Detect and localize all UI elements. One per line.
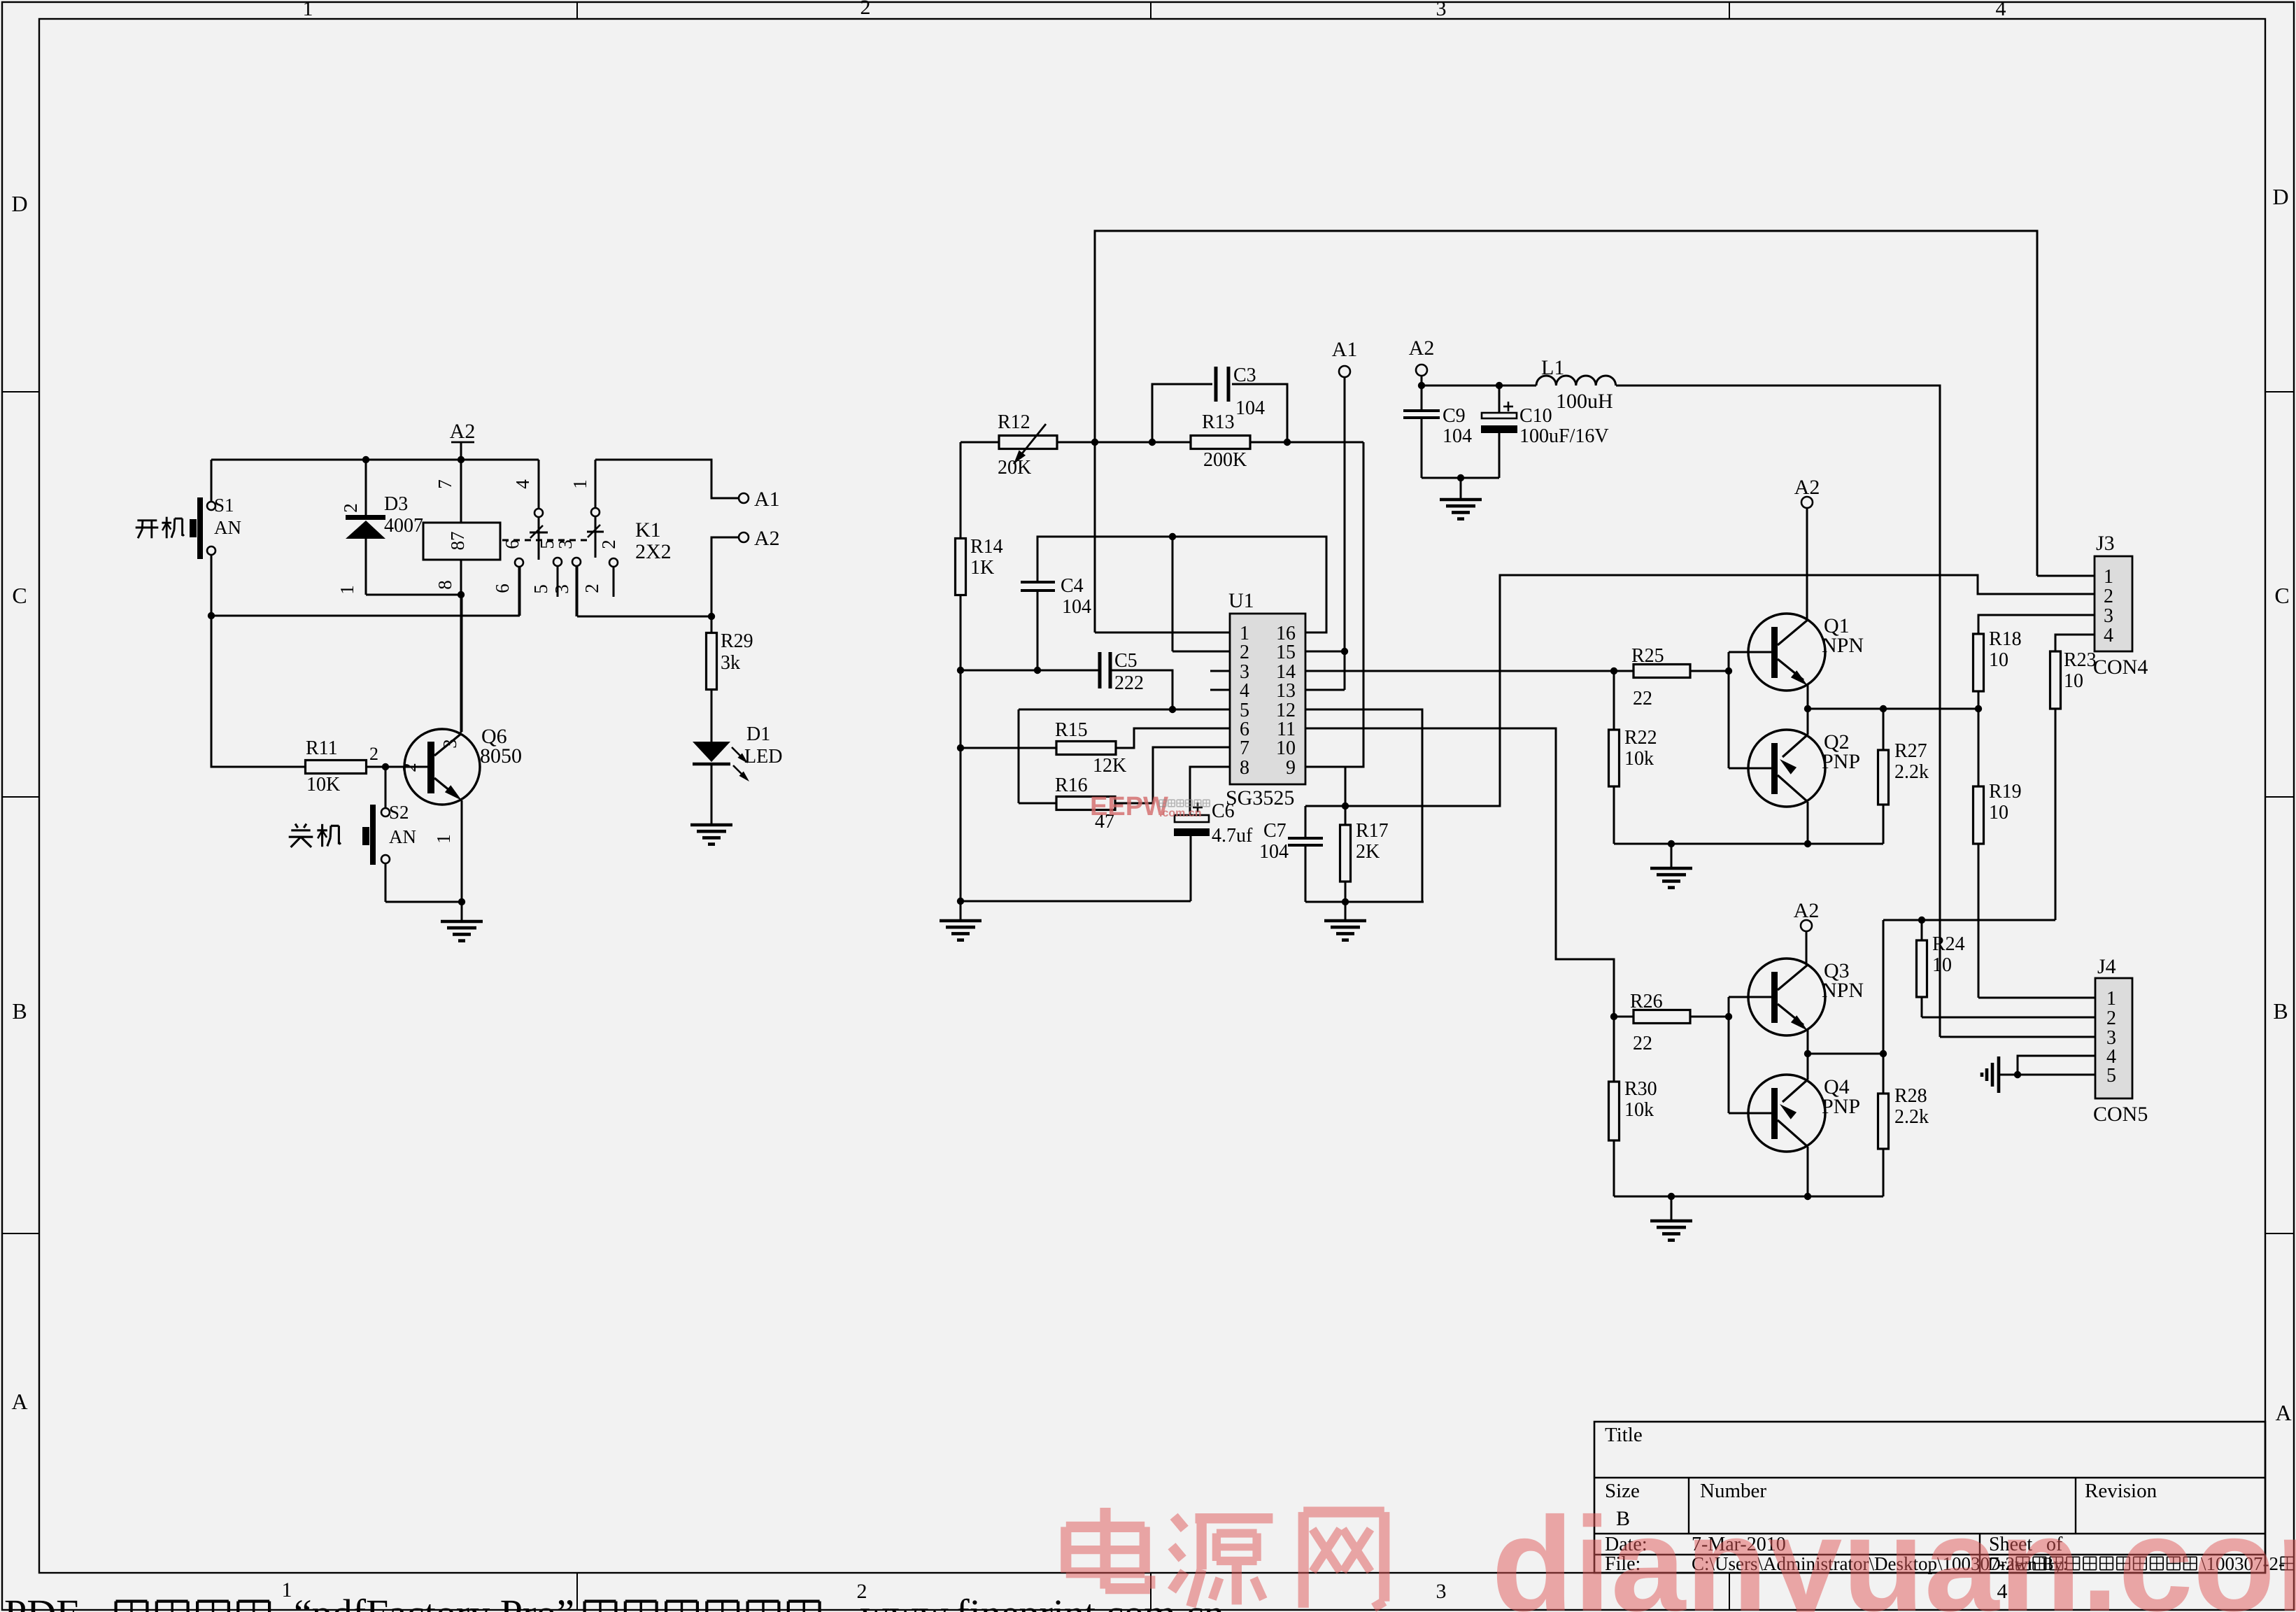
wire pin1 to feedback node bbox=[1095, 632, 1230, 634]
junction dot R14 C5 wire bbox=[957, 667, 964, 674]
svg-text:C6: C6 bbox=[1212, 800, 1235, 822]
junction dot C5 to pin5 bbox=[1169, 706, 1176, 713]
svg-text:4: 4 bbox=[1996, 0, 2006, 20]
capacitor C10 100uF/16V electrolytic bbox=[1498, 386, 1501, 413]
svg-text:200K: 200K bbox=[1203, 449, 1247, 471]
wire pin7 to R16 bbox=[1115, 747, 1230, 803]
wire L1 net to J4 pin3 bbox=[1940, 1036, 2095, 1038]
svg-text:PNP: PNP bbox=[1822, 750, 1860, 773]
wire C4 top loop to pin16 bbox=[1037, 537, 1326, 632]
svg-text:10k: 10k bbox=[1624, 748, 1654, 770]
svg-text:R26: R26 bbox=[1630, 991, 1663, 1012]
svg-text:R23: R23 bbox=[2064, 649, 2097, 671]
svg-text:PDF: PDF bbox=[4, 1591, 78, 1612]
svg-text:10K: 10K bbox=[306, 774, 340, 796]
junction dot loop pin2 vertical bbox=[1169, 533, 1176, 540]
wire R12 R13 feedback line bbox=[961, 441, 999, 444]
capacitor C3 104 bbox=[1152, 384, 1212, 442]
connector J3 CON4 bbox=[2095, 556, 2132, 651]
wire R28 top to R23 net bbox=[1883, 919, 2055, 921]
svg-text:20K: 20K bbox=[998, 457, 1031, 479]
svg-text:.com.cn: .com.cn bbox=[1159, 807, 1201, 819]
svg-text:R14: R14 bbox=[970, 536, 1003, 558]
wire J4 pin5 to ground bbox=[1999, 1074, 2095, 1076]
resistor R27 2.2k bbox=[1883, 709, 1885, 750]
svg-text:A: A bbox=[11, 1389, 27, 1414]
wire A1 down to pin15 pin13 bbox=[1344, 377, 1346, 690]
wire L1 output to J4 pin3 bbox=[1616, 386, 1940, 1037]
svg-text:R13: R13 bbox=[1202, 411, 1235, 433]
wire bottom rail contact3 to R29 node bbox=[577, 616, 711, 618]
wire pin12 down to ground rail bbox=[1305, 709, 1422, 902]
diode D3 4007 bbox=[365, 460, 367, 516]
capacitor C5 222 bbox=[1098, 652, 1102, 688]
svg-text:2: 2 bbox=[860, 0, 871, 19]
transistor Q4 PNP bbox=[1748, 1075, 1825, 1152]
pin3 stub bbox=[1210, 670, 1230, 672]
resistor R22 10k bbox=[1613, 671, 1615, 730]
svg-text:R28: R28 bbox=[1894, 1085, 1927, 1107]
junction dot ground stem rail1 bbox=[1668, 840, 1675, 847]
resistor R23 10 from J3 pin4 bbox=[2055, 635, 2095, 651]
resistor R24 10 bbox=[1921, 920, 1923, 940]
wire pin5 line bbox=[1019, 709, 1230, 711]
svg-text:3: 3 bbox=[439, 739, 460, 749]
ground under Q6 bbox=[461, 902, 463, 921]
junction dot R15 left rail bbox=[957, 744, 964, 751]
svg-text:10: 10 bbox=[1989, 649, 2008, 671]
svg-text:D: D bbox=[2272, 184, 2288, 209]
wire Q3 emitter to mid node bbox=[1807, 1029, 1809, 1054]
svg-text:A2: A2 bbox=[1794, 899, 1820, 922]
switch S1 pushbutton bbox=[211, 460, 213, 502]
svg-text:1: 1 bbox=[303, 0, 313, 20]
svg-text:A2: A2 bbox=[450, 420, 476, 443]
wire C7 R17 rail to J3 pin2 bbox=[1305, 575, 2095, 806]
capacitor C9 104 bbox=[1421, 386, 1423, 409]
svg-text:R19: R19 bbox=[1989, 781, 2022, 803]
resistor R19 10 bbox=[1973, 786, 1984, 844]
wire S1 down to R11 bbox=[211, 616, 306, 767]
junction dot A2 C9 bbox=[1418, 382, 1425, 389]
svg-text:10: 10 bbox=[1276, 737, 1296, 759]
svg-text:1: 1 bbox=[2104, 566, 2113, 588]
svg-text:R12: R12 bbox=[998, 411, 1030, 433]
wire D3 anode to relay pin 8 bbox=[366, 594, 461, 596]
junction dot relay pin7 / A2 bbox=[458, 456, 465, 463]
junction dot Q1 base node bbox=[1725, 667, 1732, 674]
svg-text:4.7uf: 4.7uf bbox=[1212, 825, 1253, 847]
ground under D1 bbox=[690, 823, 732, 827]
capacitor C4 104 bbox=[1021, 581, 1055, 584]
svg-text:R15: R15 bbox=[1055, 719, 1088, 741]
junction dot Q6 emitter ground bbox=[458, 898, 465, 905]
svg-text:R29: R29 bbox=[721, 630, 753, 652]
title block column dividers bbox=[1688, 1478, 1689, 1534]
LED D1 bbox=[693, 742, 730, 762]
svg-text:1: 1 bbox=[433, 834, 454, 844]
svg-text:1: 1 bbox=[336, 585, 357, 595]
svg-text:A1: A1 bbox=[1332, 338, 1358, 361]
wire Q3 Q4 group ground rail bbox=[1614, 1196, 1883, 1198]
relay contact throw 5 bbox=[553, 558, 562, 566]
svg-text:4: 4 bbox=[512, 479, 533, 489]
resistor R14 1K bbox=[956, 539, 966, 595]
junction dot Q1 Q2 output bbox=[1804, 705, 1811, 712]
svg-text:AN: AN bbox=[389, 826, 416, 847]
svg-text:2: 2 bbox=[399, 763, 420, 772]
svg-text:10: 10 bbox=[2064, 670, 2083, 692]
wire pin14 to R25 bbox=[1305, 670, 1614, 672]
svg-text:D1: D1 bbox=[746, 723, 770, 745]
svg-text:3: 3 bbox=[1436, 1580, 1447, 1603]
relay contact throw 3 bbox=[572, 558, 581, 566]
wire bottom rail S1 to contact 6 bbox=[211, 615, 520, 617]
ground under R14 rail bbox=[960, 901, 962, 920]
svg-text:3: 3 bbox=[2104, 605, 2113, 627]
wire pin15 stub bbox=[1305, 651, 1345, 653]
pin4 stub bbox=[1210, 689, 1230, 691]
wire output node to R18 R19 bbox=[1808, 708, 1978, 710]
resistor R15 12K bbox=[1056, 742, 1116, 755]
svg-text:2K: 2K bbox=[1356, 841, 1380, 863]
transistor Q6 8050 bbox=[404, 729, 480, 805]
junction dot A1 pin15 bbox=[1341, 648, 1348, 655]
junction dot Q6 base / S2 bbox=[382, 763, 389, 770]
junction dot R18 R19 node bbox=[1975, 705, 1982, 712]
junction dot S1 bottom rail bbox=[208, 612, 215, 619]
wire pin9 node bbox=[1345, 767, 1347, 806]
svg-text:2.2k: 2.2k bbox=[1894, 761, 1929, 783]
resistor R25 22 bbox=[1614, 670, 1634, 672]
svg-text:C9: C9 bbox=[1443, 405, 1466, 427]
resistor R30 10k bbox=[1613, 1017, 1615, 1082]
svg-text:S2: S2 bbox=[389, 802, 409, 823]
wire R13 to pin9 vertical bbox=[1305, 442, 1363, 767]
svg-text:A2: A2 bbox=[754, 527, 780, 550]
svg-text:A1: A1 bbox=[754, 488, 780, 511]
wire Q4 collector to rail bbox=[1807, 1054, 1809, 1080]
relay pin 8 stem down to Q6 collector bbox=[460, 560, 462, 733]
resistor R11 10K bbox=[306, 761, 367, 774]
transistor Q1 NPN bbox=[1748, 614, 1825, 691]
junction dot J4 pin4 pin5 bbox=[2014, 1071, 2021, 1078]
junction dot Q2 emitter rail bbox=[1804, 840, 1811, 847]
junction dot Q3 Q4 output bbox=[1804, 1050, 1811, 1057]
junction dot R24 top bbox=[1918, 917, 1925, 924]
junction dot R26 R30 bbox=[1610, 1013, 1617, 1020]
svg-text:CON4: CON4 bbox=[2093, 656, 2148, 679]
junction dot D3 top bbox=[362, 456, 369, 463]
wire R14 down to ground rail bbox=[960, 595, 962, 901]
IC U1 SG3525 body bbox=[1230, 614, 1305, 784]
wire contact1 to A1 terminal bbox=[595, 460, 739, 498]
svg-text:B: B bbox=[2273, 998, 2288, 1024]
svg-text:2: 2 bbox=[369, 744, 378, 764]
svg-text:K1: K1 bbox=[635, 518, 661, 542]
svg-text:NPN: NPN bbox=[1822, 634, 1864, 657]
junction dot relay pin8 / D3 bbox=[458, 591, 465, 598]
relay contact pole 4 bbox=[538, 460, 540, 509]
svg-text:A2: A2 bbox=[1794, 476, 1820, 499]
junction dot R17 ground bbox=[1342, 898, 1349, 905]
junction dot ground bracket bbox=[1457, 474, 1464, 481]
junction dot C10 tap bbox=[1496, 382, 1503, 389]
svg-text:104: 104 bbox=[1062, 596, 1091, 618]
junction dot R25 R22 bbox=[1610, 667, 1617, 674]
svg-text:6: 6 bbox=[502, 539, 523, 549]
relay contact dashed link bbox=[502, 539, 592, 542]
svg-text:3: 3 bbox=[551, 584, 572, 594]
svg-text:100uH: 100uH bbox=[1556, 390, 1613, 413]
ground under Q4 group bbox=[1671, 1196, 1673, 1220]
svg-text:L1: L1 bbox=[1541, 356, 1564, 379]
ground under Q2 group bbox=[1671, 844, 1673, 868]
resistor R18 10 bbox=[1978, 615, 2095, 634]
svg-text:AN: AN bbox=[214, 517, 241, 538]
svg-text:1: 1 bbox=[2106, 988, 2116, 1010]
svg-text:CON5: CON5 bbox=[2093, 1103, 2148, 1126]
svg-text:A: A bbox=[2275, 1400, 2291, 1425]
svg-text:“pdfFactory Pro”: “pdfFactory Pro” bbox=[294, 1591, 574, 1612]
wire C5 line bbox=[961, 670, 1098, 672]
wire J4 pin4 jog to pin5 net bbox=[2018, 1056, 2095, 1075]
wire pin2 to top loop bbox=[1172, 651, 1230, 653]
junction dot C4 on C5 wire bbox=[1034, 667, 1041, 674]
capacitor C7 104 bbox=[1305, 806, 1307, 837]
wire A2 to Q3 collector bbox=[1806, 931, 1808, 965]
title block row dividers bbox=[1594, 1477, 2265, 1478]
wire J3 pin1 from top rail bbox=[2037, 575, 2095, 577]
junction dot ground rail left bbox=[957, 898, 964, 905]
svg-text:87: 87 bbox=[447, 532, 468, 551]
svg-text:8050: 8050 bbox=[480, 744, 522, 768]
junction dot R12 R13 pin1 node bbox=[1091, 439, 1098, 446]
wire R12 to R14 bbox=[960, 442, 962, 539]
svg-text:4: 4 bbox=[2104, 625, 2113, 646]
resistor R13 200K bbox=[1191, 436, 1250, 449]
wire Q1 Q2 group ground rail bbox=[1614, 843, 1883, 845]
wire Q3 Q4 base ladder bbox=[1728, 997, 1730, 1113]
svg-text:1: 1 bbox=[282, 1578, 292, 1602]
switch S2 pushbutton bbox=[385, 767, 387, 808]
relay contact throw 2 bbox=[609, 558, 618, 567]
watermark dianyuan big red bbox=[1066, 1508, 1384, 1608]
junction dot C3 right leg bbox=[1284, 439, 1291, 446]
svg-text:S1: S1 bbox=[214, 495, 234, 516]
svg-text:3: 3 bbox=[1436, 0, 1447, 20]
junction dot R28 mid bbox=[1880, 1050, 1887, 1057]
wire pin6 to R15 bbox=[1116, 728, 1230, 748]
wire Q1 emitter to mid node bbox=[1807, 684, 1809, 709]
svg-text:R11: R11 bbox=[306, 737, 338, 759]
svg-text:104: 104 bbox=[1443, 425, 1472, 447]
relay pin 7 stem bbox=[460, 460, 462, 523]
resistor R17 2K bbox=[1345, 806, 1347, 825]
svg-text:C10: C10 bbox=[1519, 405, 1552, 427]
svg-text:5: 5 bbox=[530, 584, 551, 594]
ground under C9 C10 bbox=[1460, 478, 1462, 499]
svg-text:2X2: 2X2 bbox=[635, 540, 672, 563]
svg-text:J3: J3 bbox=[2096, 532, 2115, 555]
svg-text:R17: R17 bbox=[1356, 820, 1389, 842]
transistor Q3 NPN bbox=[1748, 959, 1825, 1035]
svg-text:13: 13 bbox=[1276, 680, 1296, 702]
junction dot R29 top node bbox=[708, 613, 715, 620]
svg-text:12K: 12K bbox=[1093, 755, 1126, 777]
svg-text:2: 2 bbox=[1240, 642, 1249, 663]
svg-text:1: 1 bbox=[569, 479, 590, 489]
relay contact throw 6 bbox=[515, 558, 523, 567]
svg-text:1K: 1K bbox=[970, 557, 994, 579]
wire A2 to L1 bbox=[1421, 376, 1423, 386]
junction dot ground stem rail2 bbox=[1668, 1193, 1675, 1200]
svg-text:C7: C7 bbox=[1263, 820, 1287, 842]
junction dot C3 left leg bbox=[1149, 439, 1156, 446]
wire R24 to J4 pin2 bbox=[1922, 1017, 2095, 1019]
svg-text:104: 104 bbox=[1259, 841, 1289, 863]
svg-text:C: C bbox=[12, 583, 27, 608]
terminal A2 relay output bbox=[739, 532, 749, 542]
svg-text:C: C bbox=[2274, 583, 2289, 608]
svg-text:3: 3 bbox=[555, 539, 576, 549]
svg-text:A2: A2 bbox=[1409, 337, 1435, 360]
svg-text:7: 7 bbox=[1240, 737, 1249, 759]
wire C7 R17 bottom rail bbox=[1305, 901, 1424, 903]
wire A2 terminal down to R29 bbox=[711, 537, 739, 616]
svg-text:222: 222 bbox=[1114, 672, 1144, 694]
svg-text:100uF/16V: 100uF/16V bbox=[1519, 425, 1609, 447]
wire output node to R28 bbox=[1808, 1053, 1883, 1055]
svg-text:9: 9 bbox=[1286, 757, 1296, 779]
svg-text:5: 5 bbox=[2106, 1065, 2116, 1087]
svg-text:7: 7 bbox=[434, 479, 455, 489]
svg-text:D3: D3 bbox=[384, 493, 408, 515]
svg-text:www.fineprint.com.cn: www.fineprint.com.cn bbox=[860, 1591, 1224, 1612]
svg-text:Title: Title bbox=[1605, 1424, 1643, 1446]
junction dot pin9 R17 C7 bbox=[1342, 803, 1349, 809]
svg-text:4007: 4007 bbox=[384, 515, 423, 537]
svg-text:R30: R30 bbox=[1624, 1078, 1657, 1100]
svg-text:22: 22 bbox=[1633, 1033, 1652, 1054]
svg-text:22: 22 bbox=[1633, 688, 1652, 709]
junction dot R27 top bbox=[1880, 705, 1887, 712]
svg-text:2: 2 bbox=[2104, 586, 2113, 607]
svg-text:8: 8 bbox=[1240, 757, 1249, 779]
terminal A1 relay output bbox=[739, 493, 749, 503]
label guan-ji power off bbox=[295, 823, 298, 828]
svg-text:D: D bbox=[11, 191, 27, 216]
svg-text:R27: R27 bbox=[1894, 740, 1927, 762]
svg-text:6: 6 bbox=[492, 584, 513, 593]
resistor R29 3k bbox=[711, 616, 713, 632]
svg-text:10: 10 bbox=[1989, 802, 2008, 823]
svg-text:SG3525: SG3525 bbox=[1226, 786, 1294, 809]
wire top rail left circuit bbox=[211, 459, 539, 461]
junction dot Q4 emitter rail bbox=[1804, 1193, 1811, 1200]
relay contact pole 1 bbox=[595, 460, 597, 508]
svg-text:J4: J4 bbox=[2097, 955, 2116, 978]
ground under R17 bbox=[1345, 902, 1347, 920]
wire C9 C10 ground bracket bbox=[1422, 477, 1499, 479]
wire A2 to Q1 collector bbox=[1806, 508, 1808, 620]
svg-text:dianyuan.com: dianyuan.com bbox=[1491, 1489, 2296, 1612]
junction dot Q3 base node bbox=[1725, 1013, 1732, 1020]
svg-text:2: 2 bbox=[340, 503, 361, 513]
svg-text:15: 15 bbox=[1276, 642, 1296, 663]
svg-text:B: B bbox=[12, 998, 27, 1024]
svg-text:2: 2 bbox=[581, 584, 602, 593]
svg-text:8: 8 bbox=[434, 580, 455, 590]
wire S2 to Q6 emitter node bbox=[385, 901, 462, 903]
svg-text:R24: R24 bbox=[1932, 933, 1965, 955]
wire R19 to J4 pin1 bbox=[1978, 997, 2095, 999]
svg-text:C3: C3 bbox=[1233, 365, 1256, 386]
sideways ground at J4 bbox=[1997, 1056, 2001, 1093]
svg-text:NPN: NPN bbox=[1822, 979, 1864, 1002]
resistor R28 2.2k bbox=[1883, 920, 1885, 1094]
svg-text:104: 104 bbox=[1235, 397, 1265, 419]
wire top feedback rail bbox=[1095, 231, 2037, 632]
svg-text:10k: 10k bbox=[1624, 1099, 1654, 1121]
zone tick marks bbox=[2, 391, 39, 393]
svg-text:R25: R25 bbox=[1631, 645, 1664, 667]
resistor R26 22 bbox=[1614, 1016, 1634, 1018]
svg-text:R22: R22 bbox=[1624, 727, 1657, 749]
wire pin11 to R26 bbox=[1305, 728, 1614, 1017]
svg-text:C5: C5 bbox=[1114, 650, 1138, 672]
svg-text:C4: C4 bbox=[1061, 575, 1084, 597]
svg-text:3k: 3k bbox=[721, 652, 740, 674]
wire Q1 Q2 base ladder bbox=[1728, 652, 1730, 768]
svg-text:2: 2 bbox=[2106, 1007, 2116, 1029]
wire ground rail under U1 bbox=[961, 900, 1191, 903]
svg-text:4: 4 bbox=[1240, 680, 1249, 702]
wire pin8 to C6 bbox=[1190, 767, 1230, 815]
potentiometer R12 20K bbox=[999, 436, 1057, 449]
inductor L1 100uH bbox=[1536, 376, 1616, 386]
svg-text:10: 10 bbox=[1932, 954, 1952, 976]
svg-text:LED: LED bbox=[744, 746, 782, 768]
title block outer frame bbox=[1594, 1422, 2265, 1573]
capacitor C6 4.7uf electrolytic bbox=[1175, 815, 1209, 822]
svg-text:R16: R16 bbox=[1055, 775, 1088, 796]
wire Q2 collector to rail bbox=[1807, 709, 1809, 735]
resistor R16 47 bbox=[1056, 797, 1115, 810]
svg-text:U1: U1 bbox=[1228, 589, 1254, 612]
svg-text:R18: R18 bbox=[1989, 628, 2022, 650]
svg-text:PNP: PNP bbox=[1822, 1095, 1860, 1118]
svg-text:2: 2 bbox=[598, 539, 619, 549]
svg-text:2.2k: 2.2k bbox=[1894, 1106, 1929, 1128]
label kai-ji power on bbox=[137, 519, 157, 521]
connector J4 CON5 bbox=[2095, 978, 2132, 1098]
svg-text:EEPW: EEPW bbox=[1090, 792, 1168, 821]
transistor Q2 PNP bbox=[1748, 730, 1825, 807]
relay K1 coil box bbox=[423, 523, 500, 560]
